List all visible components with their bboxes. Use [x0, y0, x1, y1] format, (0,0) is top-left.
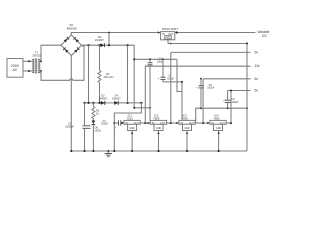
- wire sub-rail: [133, 58, 177, 60]
- wire input feed drop to bus: [113, 122, 115, 151]
- bridge rectifier B1: [61, 23, 82, 55]
- svg-text:7812/LM317: 7812/LM317: [162, 27, 179, 31]
- svg-text:7809: 7809: [153, 116, 160, 120]
- wire IC1 out to IC2 in: [140, 122, 150, 124]
- svg-text:+: +: [196, 86, 198, 89]
- wire rail branch down to diode line at 127.5: [127, 45, 129, 103]
- riser IC3 to 6v line: [202, 79, 204, 123]
- svg-text:1N4007: 1N4007: [98, 98, 107, 101]
- svg-text:AC: AC: [13, 68, 18, 72]
- svg-text:DC: DC: [262, 34, 267, 38]
- wire IC2 out to IC3 in: [167, 122, 179, 124]
- capacitor C2 100uF: [101, 120, 121, 130]
- wire ground jog to right vertical: [196, 107, 248, 123]
- wire IC3 out to IC4 in: [195, 122, 210, 124]
- riser IC1 to 12v line: [144, 66, 146, 123]
- diode D3 1N4007: [98, 95, 107, 105]
- svg-text:ADJ: ADJ: [166, 37, 170, 40]
- capacitor C4 100uF: [158, 58, 183, 121]
- regulator IC1 7812: [121, 113, 140, 130]
- earth ground symbol: [105, 150, 112, 157]
- 12v output line: [145, 64, 260, 68]
- svg-text:+: +: [158, 78, 160, 81]
- capacitor C3 100uF: [145, 58, 165, 121]
- svg-text:7812: 7812: [127, 116, 134, 120]
- svg-text:100µF: 100µF: [101, 123, 109, 126]
- regulator IC4 7805: [207, 113, 226, 130]
- svg-text:BR2005: BR2005: [67, 27, 78, 31]
- svg-text:12v: 12v: [255, 64, 261, 68]
- wire step to regulator row: [133, 107, 151, 109]
- diode D4 1N4007: [112, 95, 121, 105]
- wire bridge minus down to ground bus: [70, 56, 72, 151]
- svg-text:9v: 9v: [255, 51, 259, 55]
- svg-text:6v: 6v: [255, 77, 259, 81]
- svg-text:GND: GND: [184, 127, 190, 130]
- svg-text:GND: GND: [216, 127, 222, 130]
- AC source box 230V: [7, 59, 23, 78]
- gnd stem IC3: [186, 131, 188, 152]
- capacitor C1 2200uF: [65, 103, 93, 151]
- 5v output line: [228, 89, 259, 93]
- capacitor C6 100uF: [223, 91, 239, 109]
- right side vertical to ground: [246, 44, 248, 152]
- ground bus: [70, 150, 247, 152]
- wire diode line to regulator input feed: [114, 103, 141, 123]
- regulator IC5 LM317: [158, 27, 179, 40]
- 6v output line: [203, 77, 258, 81]
- wire bridge plus top rail to LM317 IN: [71, 33, 157, 36]
- svg-text:GND: GND: [129, 127, 135, 130]
- svg-text:100µF: 100µF: [207, 87, 215, 90]
- wire sub-rail end down: [177, 59, 182, 91]
- svg-text:7806: 7806: [182, 116, 189, 120]
- wire transformer secondary bottom to bridge AC2: [41, 46, 84, 81]
- svg-text:LED1: LED1: [95, 128, 102, 132]
- wire transformer secondary top to bridge AC1: [41, 45, 61, 61]
- capacitor C5 100uF: [196, 78, 215, 108]
- riser IC4 to 5v line: [230, 91, 232, 124]
- transformer T1: [28, 51, 42, 74]
- wire AC box to transformer primary top: [23, 60, 29, 62]
- gnd stem IC4: [218, 131, 220, 152]
- diode D2 1N4007: [95, 35, 105, 47]
- regulator IC3 7806: [176, 113, 195, 130]
- LED D6: [92, 119, 102, 152]
- resistor R2 1k: [92, 103, 100, 119]
- svg-text:GND: GND: [156, 127, 162, 130]
- wire rail corner down: [133, 45, 135, 108]
- diode line D3 D4: [83, 102, 142, 104]
- wire LM317 adj line: [168, 40, 248, 45]
- svg-text:5v: 5v: [255, 89, 259, 93]
- wire branch top rail down to main rail: [108, 32, 110, 46]
- regulator IC2 7809: [148, 113, 167, 130]
- wire IC4 out to riser: [226, 122, 232, 124]
- svg-text:230/15: 230/15: [32, 54, 41, 58]
- wire main rail from bridge: [82, 44, 135, 46]
- svg-text:7805: 7805: [213, 116, 220, 120]
- wire LM317 out to Variable DC: [175, 30, 270, 38]
- resistor R1 220 ohm on LED feed: [98, 45, 114, 103]
- svg-text:+: +: [115, 127, 117, 130]
- svg-text:220 ohm: 220 ohm: [104, 75, 114, 79]
- svg-text:1N4007: 1N4007: [95, 38, 105, 42]
- svg-text:1N4007: 1N4007: [112, 98, 121, 101]
- 9v output line: [171, 51, 259, 55]
- wire into C2 and IC1: [114, 122, 124, 124]
- gnd stem IC2: [157, 131, 159, 152]
- svg-text:2200µF: 2200µF: [65, 124, 74, 128]
- wire AC box to transformer primary bottom: [23, 70, 29, 72]
- svg-text:100µF: 100µF: [232, 101, 240, 104]
- riser IC2 to 9v line: [170, 52, 172, 123]
- gnd stem IC1: [131, 131, 133, 152]
- wire rail feed down to diode line: [88, 45, 90, 103]
